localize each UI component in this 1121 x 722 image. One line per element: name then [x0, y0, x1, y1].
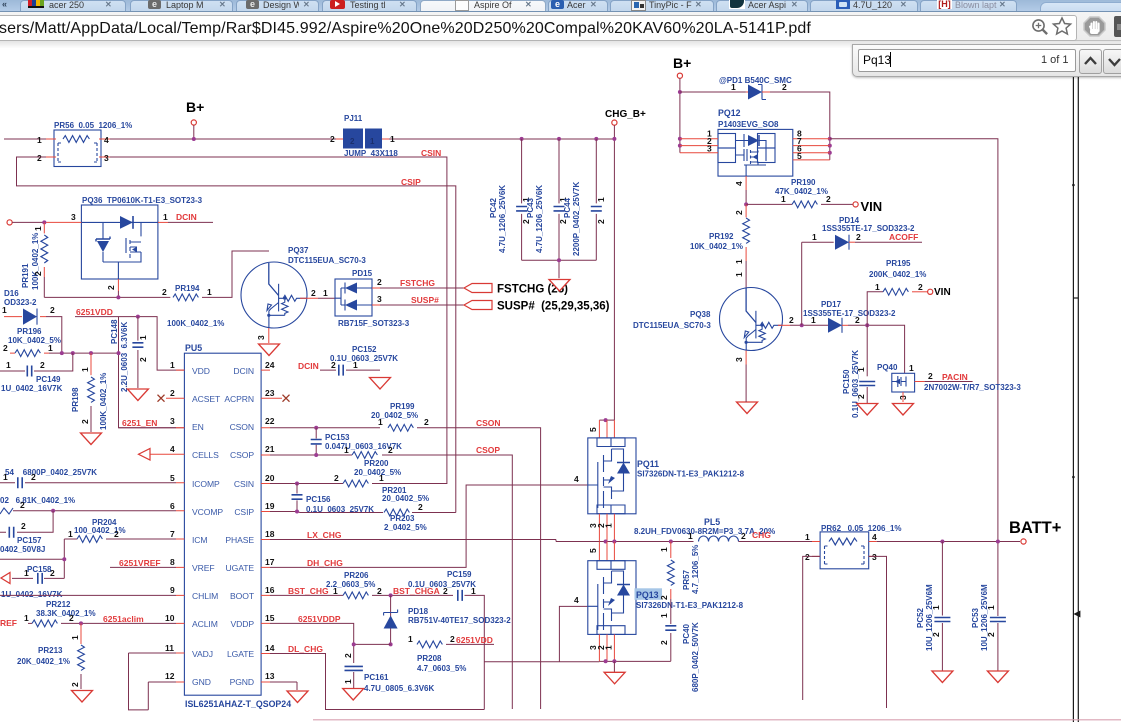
ground PC152: [370, 378, 391, 390]
svg-text:PGND: PGND: [230, 677, 254, 687]
wire PR62 lower sense taps: [803, 556, 887, 708]
svg-text:PC158: PC158: [27, 565, 52, 574]
svg-text:VIN: VIN: [934, 287, 951, 298]
svg-text:10U_1206_25V6M: 10U_1206_25V6M: [980, 584, 989, 651]
svg-text:1: 1: [734, 259, 744, 264]
svg-text:2: 2: [596, 219, 606, 224]
svg-text:1: 1: [2, 305, 7, 315]
svg-text:LX_CHG: LX_CHG: [307, 530, 342, 540]
svg-text:1U_0402_16V7K: 1U_0402_16V7K: [1, 384, 63, 393]
svg-text:1: 1: [323, 288, 328, 298]
ground PGND: [287, 691, 308, 703]
svg-text:PC43: PC43: [526, 197, 535, 218]
svg-text:4.7U_0805_6.3V6K: 4.7U_0805_6.3V6K: [364, 684, 435, 693]
ground PQ13: [613, 661, 615, 672]
wire UGATE row DH_CHG: [270, 485, 588, 567]
svg-text:4.7_0603_5%: 4.7_0603_5%: [417, 664, 466, 673]
svg-text:4.7U_1206_25V6K: 4.7U_1206_25V6K: [535, 185, 544, 253]
svg-text:1: 1: [48, 343, 53, 353]
svg-text:2: 2: [40, 360, 45, 370]
svg-text:10K_0402_5%: 10K_0402_5%: [8, 336, 61, 345]
svg-text:PR195: PR195: [886, 259, 911, 268]
svg-text:2: 2: [50, 305, 55, 315]
svg-text:2: 2: [33, 271, 43, 276]
wire BOOT row BST_CHG: [270, 594, 453, 596]
svg-text:B+: B+: [186, 99, 204, 115]
svg-text:0402_50V8J: 0402_50V8J: [0, 545, 45, 554]
svg-text:2: 2: [3, 343, 8, 353]
svg-text:1: 1: [344, 445, 349, 455]
svg-text:0.1U_0603_25V7K: 0.1U_0603_25V7K: [851, 350, 860, 418]
capacitor PC156: [296, 484, 298, 512]
svg-text:CELLS: CELLS: [192, 450, 219, 460]
svg-text:02 6.81K_0402_1%: 02 6.81K_0402_1%: [0, 496, 75, 505]
svg-text:DL_CHG: DL_CHG: [288, 644, 323, 654]
capacitor PC150: [866, 325, 868, 376]
node VIN terminal: [853, 202, 858, 207]
svg-text:680P_0402_50V7K: 680P_0402_50V7K: [691, 622, 700, 692]
svg-text:4: 4: [734, 181, 744, 186]
svg-text:1: 1: [370, 137, 375, 146]
resistor PR57: [670, 542, 672, 559]
svg-text:2: 2: [918, 282, 923, 292]
svg-text:1: 1: [659, 613, 669, 618]
svg-text:1: 1: [37, 135, 42, 145]
placeholder groups: [0, 99, 614, 513]
svg-text:PR200: PR200: [364, 459, 389, 468]
capacitor PC148: [137, 317, 139, 341]
svg-text:2: 2: [734, 210, 744, 215]
svg-text:CSOP: CSOP: [476, 445, 500, 455]
svg-text:1: 1: [138, 335, 148, 340]
svg-text:2N7002W-T/R7_SOT323-3: 2N7002W-T/R7_SOT323-3: [924, 383, 1021, 392]
svg-text:CHLIM: CHLIM: [192, 591, 218, 601]
svg-text:VDD: VDD: [192, 366, 210, 376]
svg-text:PR206: PR206: [344, 571, 369, 580]
svg-text:4.7_1206_5%: 4.7_1206_5%: [691, 545, 700, 594]
svg-text:20K_0402_1%: 20K_0402_1%: [17, 657, 70, 666]
wire PQ12 pin4: [745, 176, 747, 190]
wire BATT+ rail: [877, 541, 1020, 543]
wire CSIP left run: [17, 157, 456, 513]
resistor PR192: [745, 204, 747, 217]
wire PACIN: [915, 381, 925, 383]
svg-text:PR191: PR191: [21, 263, 30, 288]
svg-text:15: 15: [265, 613, 275, 623]
svg-text:3: 3: [707, 144, 712, 154]
svg-text:10: 10: [165, 613, 175, 623]
svg-text:1: 1: [333, 586, 338, 596]
svg-text:PC52: PC52: [916, 607, 925, 628]
svg-text:6251aclim: 6251aclim: [103, 614, 144, 624]
wire CSIP row: [270, 512, 383, 513]
pin stubs right: [261, 370, 282, 682]
svg-text:2: 2: [170, 388, 175, 398]
svg-text:PC40: PC40: [682, 623, 691, 644]
svg-text:RB751V-40TE17_SOD323-2: RB751V-40TE17_SOD323-2: [408, 616, 511, 625]
svg-text:PR57: PR57: [682, 569, 691, 590]
svg-text:PC156: PC156: [306, 495, 331, 504]
resistor PR203: [384, 509, 409, 516]
svg-text:2: 2: [424, 417, 429, 427]
wire B+ top rail: [4, 138, 614, 140]
svg-text:2: 2: [80, 419, 90, 424]
svg-text:4: 4: [872, 532, 877, 542]
wire CHLIM row: [0, 594, 176, 596]
svg-text:1: 1: [353, 360, 358, 370]
svg-text:2: 2: [377, 586, 382, 596]
svg-text:6251VREF: 6251VREF: [119, 558, 161, 568]
svg-text:13: 13: [265, 671, 275, 681]
svg-text:2: 2: [741, 531, 746, 541]
svg-text:2: 2: [334, 473, 339, 483]
svg-text:VIN: VIN: [861, 199, 883, 214]
transistor PQ11: [599, 419, 614, 421]
node B+ terminal: [191, 120, 196, 125]
svg-text:ACLIM: ACLIM: [192, 619, 218, 629]
wire CSIN row: [270, 483, 447, 485]
capacitor PC40: [670, 599, 672, 624]
node VIN terminal small: [928, 289, 933, 294]
svg-text:PQ36 TP0610K-T1-E3_SOT23-3: PQ36 TP0610K-T1-E3_SOT23-3: [82, 196, 203, 205]
wire 6251VDD: [75, 317, 185, 428]
svg-text:PQ12: PQ12: [718, 108, 741, 118]
capacitor PC153: [315, 428, 317, 455]
svg-text:VCOMP: VCOMP: [192, 507, 223, 517]
capacitor PC43: [558, 139, 560, 260]
svg-text:1: 1: [170, 360, 175, 370]
resistor PR198: [90, 353, 92, 375]
svg-text:100K_0402_1%: 100K_0402_1%: [31, 233, 40, 290]
svg-text:B+: B+: [673, 55, 691, 71]
svg-text:DTC115EUA_SC70-3: DTC115EUA_SC70-3: [288, 256, 366, 265]
svg-text:LGATE: LGATE: [227, 649, 254, 659]
svg-text:3: 3: [734, 357, 744, 362]
svg-text:1: 1: [731, 82, 736, 92]
svg-text:12: 12: [165, 671, 175, 681]
svg-text:@PD1 B540C_SMC: @PD1 B540C_SMC: [719, 76, 792, 85]
svg-text:2: 2: [521, 219, 531, 224]
wire CHG_B+ riser: [613, 125, 615, 420]
svg-text:PQ38: PQ38: [690, 310, 711, 319]
svg-text:5: 5: [170, 473, 175, 483]
wire CHG to PR62: [739, 541, 813, 543]
svg-text:EN: EN: [192, 422, 204, 432]
svg-text:PR56 0.05 1206_1%: PR56 0.05 1206_1%: [54, 121, 132, 130]
svg-text:2: 2: [558, 219, 568, 224]
svg-text:18: 18: [265, 529, 275, 539]
svg-text:2: 2: [114, 529, 119, 539]
svg-text:2: 2: [782, 82, 787, 92]
svg-text:BST_CHG: BST_CHG: [288, 586, 329, 596]
svg-text:PD17: PD17: [821, 300, 842, 309]
capacitor PC44: [595, 139, 597, 260]
svg-text:2: 2: [855, 315, 860, 325]
no-connect X ACPRN: [283, 395, 290, 402]
svg-text:1: 1: [471, 586, 476, 596]
svg-text:8: 8: [170, 557, 175, 567]
svg-text:DH_CHG: DH_CHG: [307, 558, 343, 568]
svg-text:2: 2: [805, 552, 810, 562]
svg-text:100K_0402_1%: 100K_0402_1%: [99, 373, 108, 430]
svg-text:17: 17: [265, 557, 275, 567]
svg-text:1: 1: [805, 532, 810, 542]
svg-text:3: 3: [256, 335, 266, 340]
svg-text:4: 4: [104, 135, 109, 145]
svg-text:PC153: PC153: [325, 433, 350, 442]
svg-text:10U_1206_25V6M: 10U_1206_25V6M: [925, 584, 934, 651]
wire PGND pin13: [270, 682, 297, 690]
svg-text:38.3K_0402_1%: 38.3K_0402_1%: [36, 609, 96, 618]
svg-text:PR196: PR196: [17, 327, 42, 336]
svg-text:PD18: PD18: [408, 607, 429, 616]
capacitor PC157: [0, 511, 53, 533]
ground PR213: [72, 691, 93, 703]
wire ACOFF riser: [802, 242, 834, 325]
svg-text:2: 2: [70, 682, 80, 687]
svg-text:3: 3: [377, 294, 382, 304]
svg-text:5: 5: [588, 548, 598, 553]
svg-text:1: 1: [734, 272, 744, 277]
svg-text:1: 1: [378, 417, 383, 427]
svg-text:PQ37: PQ37: [288, 246, 309, 255]
ground PC52: [932, 671, 953, 683]
connector flag FSTCHG: [464, 284, 492, 293]
svg-text:3: 3: [872, 552, 877, 562]
sheet border line B: [1077, 43, 1079, 722]
svg-text:0.1U_0603_25V7K: 0.1U_0603_25V7K: [330, 354, 398, 363]
svg-text:ACOFF: ACOFF: [889, 232, 918, 242]
wire ICM branch: [0, 539, 64, 578]
wire VDD junction row: [49, 352, 119, 354]
svg-text:2: 2: [377, 277, 382, 287]
svg-text:1: 1: [688, 531, 693, 541]
svg-text:PC150: PC150: [842, 369, 851, 394]
svg-text:2: 2: [418, 502, 423, 512]
svg-text:CSON: CSON: [230, 422, 254, 432]
svg-text:CHG: CHG: [752, 530, 771, 540]
node BATT+ terminal: [1021, 539, 1026, 544]
svg-text:1: 1: [343, 679, 353, 684]
svg-text:PD15: PD15: [352, 269, 373, 278]
svg-text:2: 2: [21, 521, 26, 531]
svg-text:PC42: PC42: [489, 197, 498, 218]
svg-text:PC159: PC159: [447, 570, 472, 579]
svg-text:1: 1: [659, 547, 669, 552]
svg-text:1: 1: [33, 226, 43, 231]
wire FSTCHG: [380, 287, 464, 289]
svg-text:2: 2: [50, 568, 55, 578]
svg-text:2: 2: [20, 500, 25, 510]
connector flag SUSP#: [464, 301, 492, 310]
svg-text:1: 1: [604, 645, 614, 650]
svg-text:GND: GND: [192, 677, 211, 687]
svg-text:CSOP: CSOP: [230, 450, 254, 460]
svg-text:4: 4: [170, 444, 175, 454]
svg-text:20_0402_5%: 20_0402_5%: [354, 468, 401, 477]
svg-text:2: 2: [37, 153, 42, 163]
svg-text:19: 19: [265, 501, 275, 511]
ground PC148: [127, 389, 148, 401]
svg-text:1: 1: [163, 212, 168, 222]
svg-text:1: 1: [68, 529, 73, 539]
svg-text:4.7U_1206_25V6K: 4.7U_1206_25V6K: [498, 185, 507, 253]
svg-text:PR212: PR212: [46, 600, 71, 609]
svg-text:PR213: PR213: [38, 646, 63, 655]
svg-text:PR190: PR190: [791, 178, 816, 187]
svg-text:1: 1: [24, 568, 29, 578]
wire LGATE DL_CHG: [270, 654, 484, 710]
svg-text:2: 2: [331, 360, 336, 370]
svg-text:VREF: VREF: [192, 563, 215, 573]
wire VREF stub: [110, 566, 176, 568]
svg-text:VDDP: VDDP: [231, 619, 255, 629]
svg-text:PC148: PC148: [110, 319, 119, 344]
pin number labels: [165, 360, 275, 681]
svg-text:100K_0402_1%: 100K_0402_1%: [167, 319, 224, 328]
svg-text:23: 23: [265, 388, 275, 398]
capacitor PC42: [521, 139, 523, 260]
svg-text:6251_EN: 6251_EN: [122, 418, 157, 428]
wire CSOP row: [270, 455, 512, 709]
svg-text:PC44: PC44: [563, 197, 572, 218]
svg-text:1SS355TE-17_SOD323-2: 1SS355TE-17_SOD323-2: [803, 309, 896, 318]
svg-text:1: 1: [24, 613, 29, 623]
svg-text:FSTCHG: FSTCHG: [400, 278, 435, 288]
svg-text:PC152: PC152: [352, 345, 377, 354]
svg-text:5: 5: [588, 427, 598, 432]
wire caps ground rail: [522, 260, 597, 278]
svg-text:CHG_B+: CHG_B+: [605, 109, 646, 120]
svg-text:BATT+: BATT+: [1009, 519, 1061, 537]
wire PQ36 source row: [44, 296, 170, 298]
svg-text:1: 1: [875, 282, 880, 292]
svg-text:9: 9: [170, 585, 175, 595]
svg-text:CSIN: CSIN: [421, 148, 441, 158]
ground PC161: [343, 689, 364, 701]
wire CSON row: [270, 428, 541, 709]
wire VDDP: [270, 623, 391, 663]
no-connect X ACSET: [158, 395, 165, 402]
svg-text:2: 2: [856, 232, 861, 242]
svg-text:PC149: PC149: [36, 375, 61, 384]
wire phase rail: [556, 541, 694, 543]
svg-text:2: 2: [659, 640, 669, 645]
svg-text:ISL6251AHAZ-T_QSOP24: ISL6251AHAZ-T_QSOP24: [185, 699, 291, 709]
svg-text:RB715F_SOT323-3: RB715F_SOT323-3: [338, 319, 410, 328]
svg-text:2.2U_0603 6.3V6K: 2.2U_0603 6.3V6K: [120, 322, 129, 392]
wire VADJ: [129, 653, 177, 710]
svg-text:5: 5: [797, 151, 802, 161]
svg-text:1: 1: [812, 232, 817, 242]
ground PQ37: [259, 344, 280, 356]
svg-text:24: 24: [265, 360, 275, 370]
svg-text:1: 1: [408, 634, 413, 644]
svg-text:CSON: CSON: [476, 418, 501, 428]
svg-text:21: 21: [265, 444, 275, 454]
ground PC42-44: [549, 280, 570, 292]
wire BOOT to gate riser: [484, 606, 599, 661]
svg-text:DCIN: DCIN: [233, 366, 254, 376]
svg-text:1: 1: [781, 194, 786, 204]
svg-text:1: 1: [379, 473, 384, 483]
svg-text:1: 1: [909, 363, 914, 373]
svg-text:DCIN: DCIN: [176, 212, 197, 222]
svg-text:2: 2: [928, 371, 933, 381]
svg-text:10K_0402_1%: 10K_0402_1%: [690, 242, 743, 251]
svg-text:PC161: PC161: [364, 673, 389, 682]
svg-text:2: 2: [69, 613, 74, 623]
svg-text:PJ11: PJ11: [344, 114, 363, 123]
connector arrow CELLS: [139, 449, 151, 461]
svg-text:2: 2: [443, 586, 448, 596]
svg-text:REF: REF: [0, 618, 17, 628]
resistor PR191: [43, 222, 45, 233]
svg-text:16: 16: [265, 585, 275, 595]
svg-text:11: 11: [165, 643, 174, 653]
svg-text:1: 1: [604, 523, 614, 528]
svg-text:PR208: PR208: [417, 654, 442, 663]
svg-text:ICOMP: ICOMP: [192, 479, 220, 489]
svg-text:3: 3: [104, 153, 109, 163]
svg-text:SUSP# (25,29,35,36): SUSP# (25,29,35,36): [497, 301, 610, 313]
svg-text:2: 2: [450, 634, 455, 644]
svg-text:1: 1: [3, 472, 8, 482]
wire PQ13 source rail: [599, 660, 670, 662]
svg-text:P1403EVG_SO8: P1403EVG_SO8: [718, 120, 779, 129]
wire PQ38 base row: [778, 324, 790, 326]
svg-text:3: 3: [71, 212, 76, 222]
svg-text:2: 2: [330, 134, 335, 144]
sheet border line A: [1072, 43, 1074, 722]
wire PHASE row LX_CHG: [270, 540, 556, 542]
svg-text:22: 22: [265, 416, 275, 426]
svg-text:4: 4: [574, 595, 579, 605]
svg-text:PACIN: PACIN: [942, 372, 968, 382]
transistor PQ13: [599, 542, 614, 561]
svg-text:PR198: PR198: [71, 387, 80, 412]
wire EN row: [119, 427, 177, 429]
svg-text:1: 1: [207, 287, 212, 297]
svg-text:6251VDD: 6251VDD: [456, 635, 493, 645]
svg-text:2: 2: [659, 595, 669, 600]
svg-text:DCIN: DCIN: [298, 361, 319, 371]
wire pin8 to right riser: [830, 139, 998, 616]
svg-text:CSIP: CSIP: [234, 507, 254, 517]
svg-text:20: 20: [265, 473, 275, 483]
svg-text:PC53: PC53: [971, 607, 980, 628]
svg-text:6: 6: [170, 501, 175, 511]
svg-text:OD323-2: OD323-2: [4, 298, 37, 307]
capacitor PC52: [941, 542, 943, 616]
svg-text:2: 2: [138, 357, 148, 362]
svg-text:2_0402_5%: 2_0402_5%: [384, 523, 427, 532]
svg-text:UGATE: UGATE: [226, 563, 255, 573]
svg-text:PR192: PR192: [709, 232, 734, 241]
svg-text:ICM: ICM: [192, 535, 207, 545]
svg-text:1: 1: [6, 360, 11, 370]
svg-text:PR199: PR199: [390, 402, 415, 411]
ground PR198: [81, 433, 102, 445]
svg-text:PHASE: PHASE: [225, 535, 254, 545]
svg-text:CSIN: CSIN: [234, 479, 254, 489]
svg-text:CSIP: CSIP: [401, 177, 421, 187]
svg-text:2: 2: [162, 287, 167, 297]
svg-text:1: 1: [80, 367, 90, 372]
svg-text:PL5: PL5: [704, 517, 720, 527]
svg-text:200K_0402_1%: 200K_0402_1%: [869, 270, 926, 279]
svg-text:PR194: PR194: [175, 284, 200, 293]
